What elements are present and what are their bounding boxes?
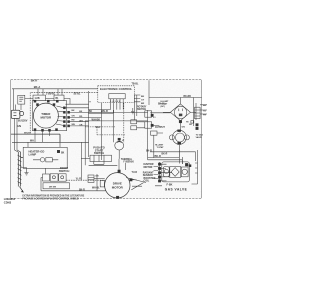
- svg-text:BK-R: BK-R: [31, 78, 38, 82]
- svg-text:MOTOR: MOTOR: [112, 185, 124, 189]
- svg-text:1-BB-BL: 1-BB-BL: [46, 94, 56, 96]
- svg-text:DR SW: DR SW: [49, 187, 56, 189]
- svg-text:BK-R: BK-R: [162, 153, 168, 155]
- svg-text:OUTPUT: OUTPUT: [155, 126, 165, 129]
- svg-text:WH-BL: WH-BL: [92, 188, 100, 190]
- svg-text:SE-BL: SE-BL: [74, 94, 81, 96]
- svg-text:WH: WH: [30, 141, 34, 143]
- svg-text:OR: OR: [79, 125, 83, 127]
- svg-text:BK: BK: [72, 110, 76, 112]
- svg-text:BK: BK: [61, 153, 65, 155]
- svg-text:WH-BK: WH-BK: [92, 118, 101, 121]
- svg-text:OR: OR: [72, 115, 76, 117]
- svg-text:WH-TD: WH-TD: [24, 133, 31, 135]
- svg-text:1-8B: 1-8B: [35, 98, 40, 100]
- svg-text:T-BK: T-BK: [129, 162, 135, 164]
- svg-text:WH: WH: [96, 126, 100, 129]
- svg-text:LDE9804: LDE9804: [4, 197, 16, 201]
- svg-text:SWITCH: SWITCH: [59, 169, 70, 173]
- svg-text:WH: WH: [72, 124, 76, 126]
- svg-text:BK-R: BK-R: [155, 155, 161, 158]
- svg-text:GN: GN: [95, 175, 99, 177]
- svg-text:BK-BL: BK-BL: [158, 103, 166, 105]
- svg-text:WH: WH: [79, 120, 83, 122]
- svg-text:12345: 12345: [110, 100, 121, 103]
- svg-text:BK: BK: [89, 111, 93, 113]
- svg-text:BU120V: BU120V: [18, 120, 28, 123]
- svg-text:SWITCH: SWITCH: [94, 151, 104, 155]
- svg-text:LAMP: LAMP: [29, 153, 37, 157]
- svg-text:CDN3: CDN3: [4, 201, 12, 205]
- svg-text:BK: BK: [141, 96, 145, 98]
- svg-text:RD: RD: [72, 120, 76, 122]
- svg-text:GN: GN: [182, 127, 186, 129]
- svg-text:BK-R: BK-R: [79, 189, 85, 191]
- svg-text:TB-BL: TB-BL: [132, 84, 139, 86]
- svg-text:BK-RD: BK-RD: [184, 96, 192, 98]
- svg-text:T-STAT: T-STAT: [157, 146, 165, 149]
- svg-text:MOTOR: MOTOR: [40, 115, 52, 119]
- svg-text:EXTRA INFORMATION IS PROVIDED: EXTRA INFORMATION IS PROVIDED IN THE LIT…: [23, 195, 85, 198]
- svg-text:WH-R: WH-R: [101, 110, 108, 113]
- svg-text:F-BK: F-BK: [167, 184, 173, 187]
- svg-text:BK: BK: [203, 105, 207, 107]
- svg-text:YL-R: YL-R: [76, 179, 82, 181]
- svg-text:BK-R: BK-R: [146, 150, 152, 152]
- svg-text:SWITCH: SWITCH: [137, 109, 146, 111]
- svg-text:GAS VALVE: GAS VALVE: [165, 187, 187, 191]
- svg-text:VALVE: VALVE: [196, 136, 203, 139]
- svg-text:PACKAGE LOCATED IN PLASTIC CON: PACKAGE LOCATED IN PLASTIC CONTROL SHIEL…: [23, 198, 80, 201]
- svg-text:COIL: COIL: [144, 180, 150, 183]
- svg-text:MOTOR: MOTOR: [144, 166, 153, 169]
- svg-text:ELECTRONIC CONTROL: ELECTRONIC CONTROL: [100, 87, 133, 91]
- svg-text:THERMAL: THERMAL: [121, 158, 133, 161]
- svg-text:(NC): (NC): [161, 106, 166, 108]
- svg-text:BK-A: BK-A: [34, 85, 41, 89]
- svg-text:GY: GY: [141, 99, 145, 101]
- svg-text:PR: PR: [203, 114, 206, 116]
- svg-text:TU-R: TU-R: [132, 172, 138, 174]
- svg-text:BK: BK: [79, 111, 83, 113]
- svg-text:TD: TD: [203, 110, 206, 112]
- svg-text:GN: GN: [17, 124, 21, 128]
- svg-text:BR: BR: [141, 103, 145, 105]
- svg-text:RD: RD: [79, 116, 83, 118]
